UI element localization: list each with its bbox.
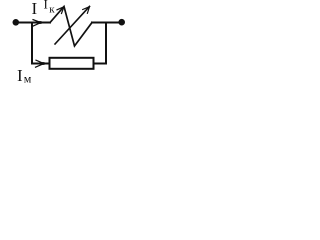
variability arrow <box>55 6 90 44</box>
svg-text:I: I <box>32 0 38 18</box>
svg-text:к: к <box>49 4 55 16</box>
node B (right) <box>118 19 125 26</box>
svg-text:I: I <box>44 0 48 12</box>
svg-text:м: м <box>24 71 32 85</box>
svg-text:I: I <box>17 66 23 85</box>
arrowhead Ik on zigzag apex <box>57 7 64 14</box>
nonlinear resistor zigzag <box>50 7 92 47</box>
node A (left) <box>13 19 20 26</box>
current arrow I <box>33 20 42 27</box>
wire top left <box>18 22 50 24</box>
wire bottom right <box>94 63 107 65</box>
wire right vertical <box>105 23 107 64</box>
wire bottom left <box>32 63 50 65</box>
resistor Rm (box) <box>50 58 94 69</box>
current arrow Im <box>36 60 45 67</box>
wire top right <box>92 22 119 24</box>
wire left vertical <box>31 23 33 64</box>
arrowhead variability arrow <box>83 7 90 14</box>
